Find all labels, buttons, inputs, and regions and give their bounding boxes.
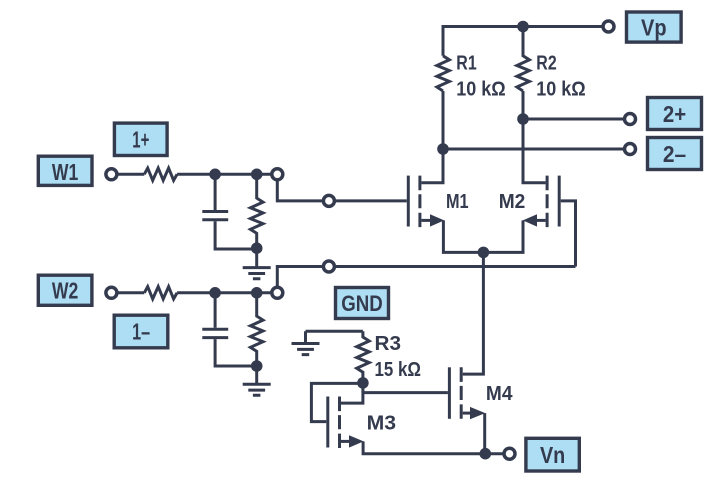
transistor M3 gate bar bbox=[326, 397, 329, 448]
wire R2 bottom to M2 drain bbox=[523, 91, 546, 183]
wire M2 gate riser bbox=[561, 201, 576, 267]
junction dot Vn bbox=[480, 448, 492, 460]
terminal circle W2 bbox=[106, 287, 117, 298]
terminal circle M1 gate link bbox=[323, 195, 334, 206]
wire node 2+ bbox=[523, 118, 624, 121]
wire top rail Vp bbox=[443, 27, 602, 56]
junction dot 2- bbox=[437, 143, 449, 155]
svg-text:W2: W2 bbox=[52, 278, 78, 304]
junction dot top rail bbox=[517, 21, 529, 33]
junction dot tail bbox=[478, 247, 490, 259]
wire M4 source down bbox=[483, 413, 486, 454]
transistor M2 source arrow bbox=[523, 214, 537, 226]
svg-text:1+: 1+ bbox=[132, 126, 149, 152]
junction dot W2 res bbox=[251, 287, 263, 299]
transistor M3 source lead bbox=[341, 440, 350, 443]
wire M2 source to tail bbox=[483, 220, 523, 252]
junction dot W1 res bbox=[251, 169, 263, 181]
terminal circle W2 out bbox=[272, 287, 283, 298]
svg-text:10 kΩ: 10 kΩ bbox=[456, 79, 505, 101]
svg-text:15 kΩ: 15 kΩ bbox=[375, 359, 422, 381]
junction dot W1 gnd bbox=[251, 242, 263, 254]
svg-text:W1: W1 bbox=[52, 159, 79, 185]
label box GND bbox=[336, 288, 389, 319]
label box Vp bbox=[627, 12, 682, 42]
resistor W2 shunt bbox=[250, 293, 263, 366]
label box 1+ bbox=[114, 123, 167, 155]
label box Vn bbox=[526, 438, 579, 471]
svg-text:10 kΩ: 10 kΩ bbox=[536, 79, 585, 101]
transistor M4 gate bar bbox=[448, 367, 451, 419]
capacitor W2 bottom lead bbox=[215, 339, 257, 366]
svg-text:2+: 2+ bbox=[663, 101, 686, 127]
svg-text:R3: R3 bbox=[375, 333, 402, 355]
transistor M1 gate bar bbox=[407, 176, 410, 227]
svg-text:M4: M4 bbox=[486, 383, 513, 405]
svg-text:M2: M2 bbox=[499, 191, 526, 213]
transistor M1 source lead bbox=[421, 219, 431, 222]
terminal circle 2+ bbox=[625, 114, 636, 125]
resistor W1 series bbox=[144, 168, 177, 180]
junction dot 2+ bbox=[517, 113, 529, 125]
wire M4 gate bbox=[363, 391, 448, 394]
svg-text:GND: GND bbox=[341, 291, 383, 316]
transistor M3 channel bbox=[338, 397, 341, 449]
label box 2+ bbox=[648, 98, 702, 130]
label box W1 bbox=[38, 156, 92, 185]
capacitor W1 bottom lead bbox=[215, 221, 257, 249]
transistor M2 source lead bbox=[536, 219, 546, 222]
resistor W1 shunt bbox=[250, 174, 263, 248]
wire W1 input bbox=[118, 173, 144, 176]
transistor M4 source arrow bbox=[470, 407, 485, 419]
transistor M4 channel bbox=[460, 367, 463, 419]
resistor W2 series bbox=[144, 287, 177, 299]
svg-text:2–: 2– bbox=[663, 141, 686, 167]
terminal circle W1 out bbox=[272, 169, 283, 180]
wire common long gate wire bbox=[335, 265, 575, 268]
wire R1 bottom to M1 drain bbox=[421, 91, 443, 183]
svg-text:M3: M3 bbox=[367, 412, 397, 434]
capacitor W1 top lead bbox=[214, 174, 217, 210]
wire node 2- bbox=[443, 148, 624, 151]
svg-text:Vp: Vp bbox=[641, 15, 667, 41]
transistor M1 channel bbox=[418, 176, 421, 228]
wire ground to R3 bbox=[306, 330, 363, 333]
wire tail to M4 drain bbox=[463, 252, 484, 374]
transistor M2 channel bbox=[546, 176, 549, 228]
wire M3 gate loop bbox=[311, 383, 363, 421]
svg-text:Vn: Vn bbox=[540, 442, 565, 468]
junction dot W2 cap bbox=[209, 287, 221, 299]
transistor M1 source arrow bbox=[430, 214, 444, 226]
wire W2 output elbow bbox=[277, 267, 322, 287]
transistor M3 source arrow bbox=[349, 435, 364, 447]
svg-text:R2: R2 bbox=[536, 52, 556, 74]
transistor M4 source lead bbox=[463, 412, 471, 415]
svg-text:M1: M1 bbox=[446, 191, 469, 213]
ground GND reference bbox=[292, 331, 320, 354]
junction dot R3 M3 bbox=[357, 377, 369, 389]
terminal circle Vp bbox=[603, 21, 614, 32]
terminal circle W1 bbox=[106, 169, 117, 180]
transistor M3 drain lead to R3 node bbox=[341, 383, 363, 403]
wire M1 gate bbox=[335, 199, 406, 202]
transistor M2 gate bar bbox=[558, 176, 561, 227]
ground W1 bbox=[243, 248, 271, 279]
resistor R3 bbox=[357, 331, 370, 383]
wire W2 input bbox=[118, 291, 144, 294]
wire M3 source to Vn rail bbox=[363, 441, 503, 453]
resistor R2 bbox=[517, 27, 530, 92]
label box 1- bbox=[114, 315, 168, 348]
svg-text:1–: 1– bbox=[132, 318, 150, 344]
wire M1 source to tail bbox=[443, 220, 483, 252]
wire W2 node bbox=[177, 291, 271, 294]
wire W1 output elbow bbox=[277, 181, 322, 201]
terminal circle gate link lower bbox=[323, 261, 334, 272]
capacitor W1 plates bbox=[202, 212, 228, 220]
resistor R1 bbox=[437, 56, 450, 91]
junction dot W1 cap bbox=[209, 169, 221, 181]
svg-text:R1: R1 bbox=[456, 52, 476, 74]
terminal circle 2- bbox=[625, 144, 636, 155]
junction dot W2 gnd bbox=[251, 360, 263, 372]
ground W2 bbox=[243, 366, 271, 395]
label box W2 bbox=[38, 275, 92, 305]
capacitor W2 plates bbox=[202, 329, 228, 337]
terminal circle Vn bbox=[504, 448, 515, 459]
capacitor W2 top lead bbox=[214, 293, 217, 328]
wire W1 node bbox=[177, 173, 271, 176]
label box 2- bbox=[648, 138, 702, 170]
